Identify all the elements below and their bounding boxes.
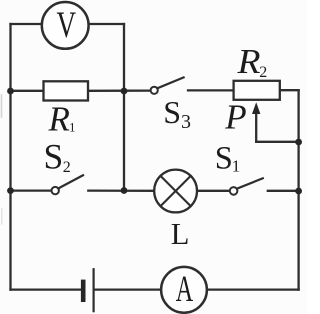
wire bottom left to battery — [11, 288, 82, 290]
wire S1 gap end to right rail — [268, 190, 299, 192]
node junction dot right rail row2 — [295, 188, 302, 195]
wire right rail vertical x=298 — [297, 90, 299, 289]
wire top-left horizontal to voltmeter — [11, 23, 43, 25]
slider arrow P of R2 — [252, 102, 260, 142]
voltmeter V — [42, 2, 89, 49]
svg-text:2: 2 — [259, 64, 267, 81]
resistor R2 — [234, 81, 280, 100]
svg-text:1: 1 — [69, 120, 76, 135]
svg-text:S: S — [163, 94, 181, 130]
switch S1 — [230, 178, 263, 194]
node junction dot x124 row2 — [121, 187, 128, 194]
wire S2 gap end to lamp — [88, 189, 154, 191]
svg-text:P: P — [224, 98, 246, 137]
wire battery to ammeter — [96, 288, 162, 290]
wire middle vertical at x=124 from top wire to lamp row — [123, 24, 125, 191]
node junction dot left row2 — [7, 187, 14, 194]
wire S3 right gap end to R2 left — [188, 89, 234, 91]
ammeter A — [161, 267, 207, 313]
wire R2 right to right rail — [280, 89, 299, 91]
resistor R1 — [44, 81, 89, 100]
svg-text:R: R — [48, 100, 70, 139]
svg-text:V: V — [57, 4, 77, 45]
wire R1 right to S3 — [88, 89, 151, 92]
wire row1 left segment to R1 — [11, 90, 44, 92]
battery cell — [81, 269, 94, 311]
lamp L — [154, 170, 197, 213]
svg-text:3: 3 — [181, 111, 191, 133]
svg-text:R: R — [236, 42, 260, 81]
svg-text:S: S — [44, 136, 64, 176]
wire slider horizontal to right rail — [256, 141, 298, 143]
svg-text:S: S — [215, 140, 233, 176]
svg-text:L: L — [171, 217, 190, 251]
wire left vertical (top-left corner down to bottom-left corner) — [9, 24, 11, 290]
switch S3 — [151, 77, 184, 94]
svg-text:1: 1 — [232, 157, 241, 176]
wire ammeter right to bottom-right corner — [207, 288, 299, 290]
switch S2 — [52, 175, 84, 194]
node junction dot x124 row1 — [121, 88, 128, 95]
node junction dot right rail slider row — [295, 139, 302, 146]
svg-text:2: 2 — [63, 159, 71, 176]
wire row2 left segment to S2 — [11, 189, 52, 191]
svg-text:A: A — [176, 268, 194, 309]
node junction dot left row1 — [7, 88, 14, 95]
wire lamp right to S1 — [197, 190, 230, 192]
wire voltmeter right to top-right corner — [88, 23, 124, 25]
